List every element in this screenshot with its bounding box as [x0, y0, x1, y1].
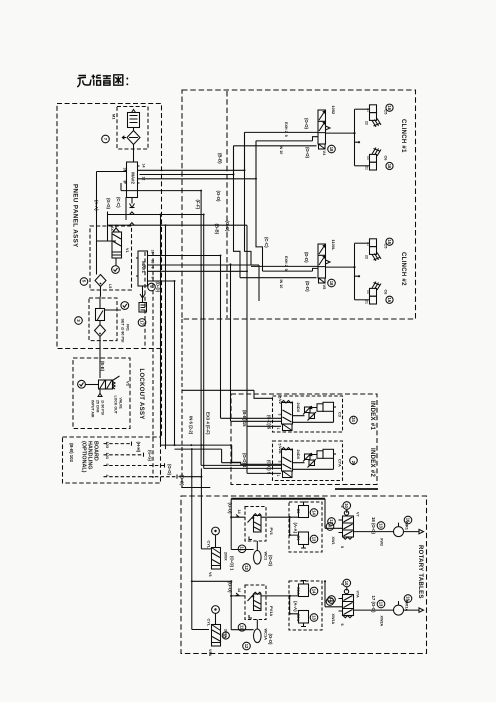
arrow out right lower [404, 608, 424, 612]
svg-text:V5: V5 [322, 285, 327, 291]
bus y445 [161, 444, 232, 446]
svg-text:(A-A): (A-A) [293, 523, 298, 534]
svg-text:21: 21 [367, 108, 371, 112]
svg-text:13: 13 [311, 615, 316, 620]
svg-text:IN 10: IN 10 [279, 146, 283, 155]
svg-text:16: 16 [405, 518, 410, 523]
svg-text:C1A: C1A [296, 587, 301, 595]
svg-text:3: 3 [278, 414, 282, 416]
junction dots board row4 [191, 476, 203, 478]
filter F1 diamond [127, 131, 140, 145]
svg-text:L5: L5 [108, 284, 112, 288]
L mark [249, 537, 252, 540]
circle 18 c2 [328, 279, 336, 287]
flow tick arrows [130, 212, 135, 225]
svg-text:16: 16 [387, 239, 392, 244]
svg-text:3: 3 [278, 461, 282, 463]
circle 13 near v7 [328, 518, 336, 526]
circle 7 [102, 135, 110, 143]
svg-text:V6: V6 [208, 572, 212, 577]
wire into valve V5 mid [263, 268, 319, 271]
svg-text:1: 1 [276, 475, 280, 477]
wire into valve V4 top [245, 131, 319, 133]
svg-text:22: 22 [367, 156, 371, 160]
index2 sub dashed box [273, 441, 343, 481]
clinch trunk jogs down to clinch #2 [234, 132, 263, 277]
svg-text:103: 103 [105, 442, 110, 449]
svg-text:22: 22 [365, 121, 369, 125]
svg-text:13: 13 [311, 537, 316, 542]
circle 12 [243, 564, 251, 572]
arrow out right [404, 529, 424, 533]
svg-text:21: 21 [365, 300, 369, 304]
svg-text:5: 5 [340, 546, 344, 548]
svg-text:(O-O) 1: (O-O) 1 [230, 556, 235, 571]
exhaust triangle V4 [326, 126, 331, 130]
svg-text:21: 21 [365, 166, 369, 170]
wire muffler to filter handled by diamond top, wire filter to valve MA#2 [133, 128, 135, 163]
gauge AIR1A [394, 605, 404, 615]
trunk vertical x220 [220, 256, 222, 419]
circle 5 [80, 278, 88, 286]
svg-text:C1: C1 [296, 536, 301, 542]
svg-text:(G-G): (G-G) [106, 198, 111, 210]
svg-text:FR1: FR1 [126, 324, 130, 331]
svg-text:LOCK OUT: LOCK OUT [114, 396, 118, 415]
top wire y581 [192, 580, 231, 582]
bus y449 [175, 448, 222, 450]
junction dots clinch2 [353, 266, 360, 277]
svg-text:C3: C3 [296, 509, 301, 515]
valve V1 [110, 225, 129, 258]
circle 13 near v7a [328, 596, 336, 604]
svg-text:12: 12 [244, 644, 249, 649]
svg-text:(A-A): (A-A) [293, 601, 298, 612]
wire MA#2 out top to clinch trunk A [140, 132, 245, 170]
svg-text:10: 10 [344, 581, 349, 586]
svg-text:(F-F): (F-F) [196, 200, 201, 210]
supply riser from filter chain to MA#2 area [97, 172, 127, 269]
valve PV1 [254, 516, 262, 533]
svg-text:V2: V2 [278, 399, 283, 405]
junction dots bus [174, 444, 291, 536]
svg-text:MA#1: MA#1 [141, 261, 146, 273]
svg-text:16: 16 [387, 298, 392, 303]
circle 16 lower [386, 162, 393, 169]
flow control 1 [305, 407, 311, 413]
svg-text:INDEX #2: INDEX #2 [369, 448, 375, 477]
svg-text:EXH 2: EXH 2 [284, 256, 288, 267]
cylinder C2A [299, 611, 309, 624]
svg-text:13: 13 [378, 523, 383, 528]
valve MA#2 [123, 162, 146, 198]
wire MA#2 out to clinch trunk B [140, 141, 257, 179]
circle 11 lower [238, 624, 246, 632]
V1 sub dashed box [90, 226, 132, 290]
svg-text:XW2A: XW2A [380, 616, 384, 627]
muffler M1 [112, 110, 140, 128]
circle 9 lower [326, 598, 334, 606]
svg-text:200X: 200X [224, 629, 228, 638]
circle 16 lower c2 [386, 296, 393, 303]
cylinder C5 [370, 105, 377, 113]
trunk vertical x247 [246, 225, 248, 473]
svg-text:CLINCH #1: CLINCH #1 [400, 119, 406, 153]
wire into valve V4 pilot [234, 145, 317, 147]
svg-text:10: 10 [123, 168, 127, 172]
svg-text:(O-O): (O-O) [268, 634, 273, 646]
svg-text:(C-C) 5: (C-C) 5 [267, 415, 272, 430]
svg-text:PV1: PV1 [269, 528, 274, 536]
trunk vertical x165.5 [165, 225, 167, 449]
svg-text:XW2: XW2 [380, 538, 384, 546]
dashed riser x182 below clinch box [181, 319, 183, 488]
svg-text:V1: V1 [125, 248, 129, 253]
wire to cylinder C7 [355, 242, 370, 244]
svg-text:101: 101 [105, 453, 110, 460]
gauge circle lockout [78, 380, 86, 388]
feed wire solenoid [247, 425, 281, 427]
svg-text:(D-D): (D-D) [304, 252, 309, 263]
feed drop lower [231, 581, 253, 629]
svg-text:V7: V7 [356, 512, 360, 517]
valve V6 [212, 548, 221, 570]
svg-text:IN 10: IN 10 [279, 280, 283, 289]
solenoid V4 [319, 144, 326, 149]
svg-text:14: 14 [311, 510, 316, 515]
trunk vertical x201 [201, 191, 204, 469]
wire V7A to gauge [354, 609, 394, 611]
svg-text:V4: V4 [322, 151, 327, 157]
wire y271.3 [150, 270, 248, 272]
return wire idx2 [293, 458, 334, 469]
svg-text:VALVE: VALVE [119, 398, 123, 410]
valve PV1A [254, 594, 262, 611]
svg-text:IN 6 (2-2): IN 6 (2-2) [189, 416, 194, 435]
svg-text:SET @ 80 PSI: SET @ 80 PSI [121, 319, 125, 343]
muffler/filter sub-box [117, 107, 148, 150]
svg-text:13: 13 [378, 602, 383, 607]
svg-text:16: 16 [387, 105, 392, 110]
wire to cylinder C8 [355, 299, 370, 301]
wire y255.5 [150, 255, 221, 257]
svg-text:EXH 2: EXH 2 [284, 122, 288, 133]
svg-text:C6: C6 [384, 156, 389, 162]
flow control 2 idx2 [309, 460, 315, 466]
trunk vertical x160.5 [160, 215, 162, 446]
svg-text:(O-O): (O-O) [167, 464, 172, 476]
cylinder C1A [299, 584, 309, 597]
svg-text:(E-E): (E-E) [100, 361, 105, 372]
valve MA#1 [136, 250, 155, 287]
svg-text:V3: V3 [126, 381, 131, 387]
svg-text:18: 18 [329, 281, 334, 286]
flow control 2 [309, 413, 315, 419]
wires FR1 chain [99, 297, 101, 379]
svg-text:(B-B): (B-B) [218, 153, 223, 164]
svg-text:16: 16 [405, 596, 410, 601]
svg-text:22: 22 [365, 255, 369, 259]
filter L1 diamond [95, 275, 106, 287]
flow control 1 idx2 [305, 454, 311, 460]
gauge AIR1 [394, 527, 404, 537]
regulator FR1 [96, 309, 125, 321]
return wire [293, 411, 334, 422]
svg-text:PNEU PANEL ASSY: PNEU PANEL ASSY [72, 184, 79, 248]
valve V7A [343, 595, 354, 616]
svg-text:INPUT AIR: INPUT AIR [91, 400, 95, 418]
C1 C3 dashed box [289, 502, 322, 552]
junction dots clinch1 [353, 132, 360, 143]
svg-text:8: 8 [123, 181, 127, 183]
interconnect 487.5 [181, 487, 210, 489]
LOCKOUT ASSY dashed box [73, 358, 130, 429]
svg-text:(D-D): (D-D) [305, 281, 310, 292]
wires in c1a box [290, 596, 299, 614]
svg-text:(O-O): (O-O) [228, 503, 233, 515]
wire valve out to cylinders [326, 132, 355, 134]
circle 12 lower [243, 642, 251, 650]
PV1A dashed box [245, 585, 266, 620]
index1 sub dashed box [273, 396, 343, 432]
vent triangle [98, 389, 102, 397]
svg-text:(C-C): (C-C) [264, 237, 269, 248]
cylinder C6 [370, 162, 377, 170]
PV1 dashed box [245, 507, 266, 542]
dashed riser x161.5 lower [161, 349, 163, 438]
muffler under MA#1 [140, 286, 145, 303]
svg-text:10: 10 [344, 503, 349, 508]
main wire y517 [231, 516, 298, 518]
svg-text:1: 1 [276, 428, 280, 430]
circle 20 [350, 457, 358, 465]
svg-text:11: 11 [239, 547, 244, 552]
drop to V7A [325, 581, 343, 607]
circle 16 air1a [404, 595, 412, 603]
circle 13 right lower [377, 600, 385, 608]
svg-text:M1: M1 [112, 114, 117, 120]
circle 10 lower [343, 579, 351, 587]
FR1 sub dashed box [89, 298, 117, 341]
wire y281 [150, 281, 175, 445]
wire into valve V5 pilot [240, 277, 317, 279]
valve V8A [212, 625, 221, 647]
L mark lower [249, 615, 252, 618]
wire V7 to gauge [354, 531, 394, 533]
filter diamond FR1 [95, 325, 106, 337]
svg-text:1100L: 1100L [331, 240, 336, 251]
svg-text:18: 18 [329, 147, 334, 152]
wires V1 area [97, 241, 117, 297]
svg-text:C2A: C2A [296, 614, 301, 622]
CLINCH dashed enclosure [182, 90, 416, 319]
svg-text:XW1: XW1 [331, 537, 335, 545]
circle 16 upper c2 [386, 238, 393, 245]
svg-text:20: 20 [351, 461, 356, 466]
svg-text:(O-O): (O-O) [216, 191, 221, 203]
rotary feed vertical x201.4 [201, 468, 212, 549]
wire to cylinder C6 [355, 165, 370, 167]
trunk vertical x230.5 [230, 264, 232, 421]
circle 3 [75, 317, 83, 325]
svg-text:(O-O) 1: (O-O) 1 [242, 453, 247, 468]
solenoid V5 [319, 278, 326, 283]
feed wire top from trunk [182, 390, 273, 398]
gauge circle above V8A [212, 606, 220, 614]
svg-text:(G-G): (G-G) [148, 450, 153, 462]
svg-text:22: 22 [367, 290, 371, 294]
wire into valve V5 top [251, 265, 318, 267]
gauge circle with check [112, 266, 120, 274]
svg-text:(B-B) 103: (B-B) 103 [69, 443, 74, 462]
svg-text:(B-B) 15: (B-B) 15 [242, 410, 247, 427]
circle 11 [238, 545, 246, 553]
svg-text:200X: 200X [224, 552, 228, 561]
gauge circle 2 [121, 302, 129, 310]
svg-text:(O-O): (O-O) [304, 118, 309, 130]
exhaust triangle V5 [326, 260, 331, 264]
svg-text:WC1: WC1 [264, 552, 269, 561]
feed drop from heavy bar [231, 499, 253, 550]
circle 14 r2 [310, 587, 318, 595]
rotary feed vertical x196 [192, 449, 209, 629]
svg-text:5: 5 [284, 135, 288, 137]
svg-text:24DX: 24DX [296, 450, 301, 460]
muffler WC1A [253, 629, 261, 643]
circle 14 r1 [310, 509, 318, 517]
exhaust arrow under MA#2 [130, 198, 135, 208]
svg-text:C3: C3 [338, 412, 343, 418]
circle 13 r2 [310, 614, 318, 622]
svg-text:1052: 1052 [331, 106, 336, 115]
svg-text:CYL: CYL [207, 541, 212, 549]
valve V5 body [318, 244, 326, 278]
board handling dashed wires [104, 444, 178, 477]
main wire y595.9 [231, 595, 298, 597]
circle 17 [138, 319, 146, 327]
svg-text:24: 24 [351, 417, 356, 422]
C1A C2A dashed box [289, 581, 322, 630]
svg-text:@ 90 PSI: @ 90 PSI [101, 400, 105, 415]
svg-text:5: 5 [340, 624, 344, 626]
svg-text:(D-D): (D-D) [156, 282, 161, 293]
board row4 solid continuation [179, 476, 202, 478]
muffler WC1 [253, 551, 261, 565]
cylinder C7 [370, 239, 377, 247]
svg-text:CYL: CYL [207, 619, 212, 627]
svg-text:(B-B): (B-B) [215, 224, 220, 235]
cylinder C3 index1 [317, 404, 323, 412]
svg-text:AX: AX [110, 226, 114, 232]
svg-text:(H-H): (H-H) [136, 442, 141, 453]
cylinder C7A index2 [317, 451, 323, 459]
feed wire top from bus [232, 445, 282, 464]
valve V2A 24DX [282, 450, 293, 472]
svg-text:11: 11 [239, 625, 244, 630]
wire to cylinder C5 [355, 108, 370, 110]
circle 13 r1 [310, 535, 318, 543]
circle 18 [328, 145, 336, 153]
cylinder C8 [370, 296, 377, 304]
svg-text:(O-O): (O-O) [228, 582, 233, 594]
wire valve to cylinder idx2 [293, 455, 318, 463]
svg-text:25 CFM: 25 CFM [96, 400, 100, 413]
dashed riser x153 [152, 252, 154, 478]
circle 10 [343, 502, 351, 510]
valve V7 [343, 516, 354, 537]
junction dots [160, 169, 258, 282]
valve V4 body [318, 110, 326, 144]
svg-text:24DX: 24DX [296, 403, 301, 413]
circle 13 right [377, 522, 385, 530]
thick bar under index box [231, 498, 325, 500]
junction dots rotary2 [191, 580, 291, 615]
BOARD HANDLING dashed box [63, 437, 161, 483]
svg-text:14: 14 [142, 164, 146, 168]
junction dot rotary2 drop [324, 580, 326, 582]
cylinder C3 [299, 506, 309, 518]
svg-text:V2A: V2A [278, 446, 283, 454]
gauge circle above V6 [212, 527, 220, 535]
title 气路图: [77, 75, 127, 88]
circle 9 [326, 523, 334, 531]
svg-text:WC1A: WC1A [264, 629, 269, 641]
thick segment under index2 label [335, 488, 378, 490]
svg-text:EX3 4 (F-F): EX3 4 (F-F) [206, 412, 211, 435]
svg-text:LOCKOUT ASSY: LOCKOUT ASSY [138, 369, 144, 420]
wire MA#2 to clinch trunk C [140, 146, 234, 175]
svg-text:(O-O): (O-O) [305, 147, 310, 159]
feed wires left pair [221, 418, 282, 421]
wire y265 [150, 264, 260, 266]
svg-text:V8A: V8A [208, 649, 212, 657]
wire valve to cylinder [293, 408, 318, 416]
circle 16 air1 [404, 516, 412, 524]
svg-text:V7A: V7A [356, 591, 360, 599]
circle 13 beside V8A [222, 632, 229, 639]
svg-text:12: 12 [244, 565, 249, 570]
trunk vertical x259 [258, 265, 260, 301]
svg-text:C7A: C7A [338, 459, 343, 467]
svg-text:CLINCH #2: CLINCH #2 [400, 252, 406, 286]
circle 16 upper [386, 104, 393, 111]
feed wires left pair idx2 [201, 449, 281, 468]
drop from heavy bar to V7 [325, 499, 343, 529]
circle 24 [350, 416, 358, 424]
PNEU PANEL ASSY dashed enclosure [57, 104, 162, 349]
wires in c1c3 box [290, 517, 299, 535]
feed wire solenoid idx2 [247, 472, 281, 474]
circle 9 [148, 283, 156, 291]
svg-text:5: 5 [284, 269, 288, 271]
svg-text:ROTARY TABLES: ROTARY TABLES [417, 545, 423, 599]
wire MA#2 lower network [108, 183, 248, 241]
svg-text:XW1A: XW1A [331, 614, 335, 625]
wire valve out to cylinders c2 [326, 266, 355, 268]
svg-text:PV1A: PV1A [269, 606, 274, 616]
svg-text:INDEX #1: INDEX #1 [369, 401, 375, 430]
clinch interior dashed divider [226, 91, 228, 318]
lockout valve V3 [86, 376, 131, 389]
cylinder C1 [299, 532, 309, 545]
svg-text:17: 17 [139, 320, 144, 325]
svg-text:21: 21 [367, 242, 371, 246]
dashed interior divider x145 [144, 252, 146, 348]
wire into valve V4 mid [256, 137, 318, 141]
svg-text:(C-C) 5: (C-C) 5 [267, 460, 272, 475]
svg-text:(O-O): (O-O) [268, 555, 273, 567]
svg-text:14: 14 [311, 589, 316, 594]
